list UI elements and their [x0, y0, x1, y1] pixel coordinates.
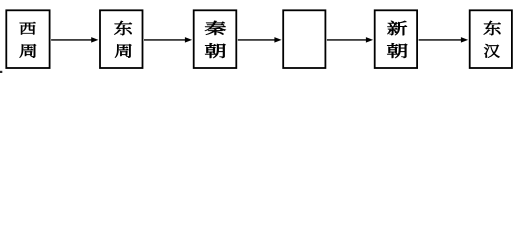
box 4: (empty)	[283, 10, 325, 68]
box 3: 秦朝	[194, 10, 237, 68]
box 2: 东周	[100, 10, 143, 68]
arrow 5	[419, 37, 469, 43]
box 6: 东汉	[470, 10, 512, 68]
arrow 1	[51, 37, 98, 43]
stray mark bottom-left	[0, 71, 2, 73]
arrow 2	[144, 37, 192, 43]
arrow 4	[327, 37, 373, 43]
arrow 3	[238, 37, 282, 43]
box 1: 西周	[6, 10, 49, 68]
box 5: 新朝	[375, 10, 417, 68]
